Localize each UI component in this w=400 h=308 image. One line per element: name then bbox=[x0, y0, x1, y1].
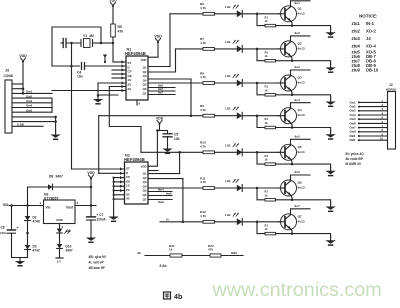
wire J1 pin9 bbox=[12, 120, 57, 123]
svg-text:47k: 47k bbox=[208, 248, 213, 252]
wire row7 to diode bbox=[215, 221, 237, 223]
wire J2 pin8 Ow8 bbox=[350, 128, 388, 134]
crystal Y1 4MHz bbox=[81, 34, 101, 48]
resistor R22 47k bottom bbox=[208, 244, 221, 257]
svg-text:9o13: 9o13 bbox=[298, 186, 305, 190]
wire row1 to ground bbox=[292, 26, 331, 29]
wire bus to row2 bbox=[175, 49, 177, 72]
svg-text:ztu2: ztu2 bbox=[352, 29, 361, 34]
wire row4 to diode bbox=[215, 115, 237, 117]
wire U2 pin8 stub bbox=[113, 198, 125, 200]
wire row2 input bbox=[176, 48, 204, 50]
text PSU notes bbox=[89, 255, 107, 270]
svg-text:9o2: 9o2 bbox=[295, 31, 301, 35]
wire collector out row1 bbox=[291, 1, 311, 7]
wire U2 Q4 stub bbox=[148, 188, 172, 192]
diode D10 1N4007 bbox=[57, 244, 73, 253]
wire collector out row4 bbox=[291, 98, 311, 109]
svg-text:9407: 9407 bbox=[56, 175, 64, 179]
wire row6 diode to base bbox=[242, 187, 285, 190]
svg-text:Vin: Vin bbox=[46, 206, 51, 210]
wire J2 pin2 Ow2 bbox=[350, 103, 388, 109]
wire row2 junction down bbox=[257, 49, 265, 61]
wire D9 to D10 bbox=[59, 233, 61, 244]
svg-text:9407: 9407 bbox=[66, 249, 73, 253]
ground below C7 bbox=[86, 234, 96, 242]
svg-text:Q7: Q7 bbox=[143, 197, 147, 201]
wire emitter row1 bbox=[291, 21, 293, 26]
wire U2 Q3 out bbox=[148, 178, 183, 180]
wire U2 pin1 cascade A bbox=[72, 167, 125, 170]
LED D5 bbox=[225, 143, 242, 155]
wire U2 Q2 out bbox=[148, 173, 180, 175]
svg-text:Ow4: Ow4 bbox=[26, 104, 32, 108]
wire U2 VDD pin up bbox=[148, 129, 159, 166]
wire U1 VDD pin bbox=[148, 45, 158, 57]
svg-text:9o4: 9o4 bbox=[295, 98, 301, 102]
svg-text:L1B: L1B bbox=[225, 5, 230, 9]
svg-text:4742: 4742 bbox=[33, 249, 40, 253]
wire up to D8 bbox=[28, 187, 49, 206]
wire U1 Q4 out bbox=[148, 78, 191, 80]
svg-text:9w5: 9w5 bbox=[166, 192, 172, 196]
wire J1 pin8 bbox=[12, 116, 57, 119]
svg-text:Q2: Q2 bbox=[298, 41, 302, 45]
resistor R11 4.7k bbox=[200, 176, 215, 189]
wire 7805 out bbox=[75, 204, 96, 207]
svg-text:1k: 1k bbox=[265, 158, 269, 162]
svg-text:4b: 4b bbox=[174, 292, 183, 301]
svg-text:9w6: 9w6 bbox=[158, 200, 164, 204]
wire row5 junction down bbox=[257, 152, 265, 164]
wire oscillator loop left bbox=[51, 27, 53, 66]
svg-text:104: 104 bbox=[174, 137, 180, 141]
svg-text:M AMR 4V: M AMR 4V bbox=[346, 162, 362, 166]
LED D1 bbox=[225, 5, 242, 17]
svg-text:Ow1: Ow1 bbox=[26, 90, 32, 94]
wire pulldown to emitter row2 bbox=[276, 59, 294, 62]
wire row6 input bbox=[148, 187, 203, 189]
svg-text:Q7: Q7 bbox=[298, 214, 302, 218]
svg-text:C8: C8 bbox=[1, 226, 5, 230]
IC U1 HEF4094B shift register bbox=[125, 48, 148, 101]
svg-text:VDD: VDD bbox=[156, 116, 164, 120]
svg-text:9o6: 9o6 bbox=[295, 170, 301, 174]
wire bus to row1 bbox=[169, 14, 171, 67]
svg-text:9o7: 9o7 bbox=[295, 204, 301, 208]
wire U2 pin4 stub bbox=[113, 180, 125, 183]
wire pulldown to emitter row6 bbox=[276, 199, 294, 202]
svg-text:IN-1: IN-1 bbox=[366, 21, 375, 26]
capacitor C7 220uF bbox=[87, 213, 106, 222]
wire row4 junction down bbox=[257, 116, 265, 128]
transistor Q6 9013 bbox=[278, 180, 305, 196]
wire U2 bus to ground bbox=[113, 178, 115, 213]
wire row7 junction down bbox=[257, 222, 265, 234]
IC N3 7805 regulator bbox=[40, 193, 79, 230]
wire row3 to ground bbox=[292, 95, 331, 98]
svg-text:D9: D9 bbox=[67, 229, 71, 233]
wire row1 input bbox=[170, 13, 203, 15]
wire bus to row7 bbox=[182, 179, 185, 223]
LED D3 bbox=[225, 74, 242, 86]
wire J2 pin10 DB5 bbox=[350, 137, 388, 143]
wire emitter row6 bbox=[291, 195, 293, 200]
wire emitter row7 bbox=[291, 229, 293, 234]
wire U1 gnd stub bbox=[137, 100, 141, 106]
wire collector out row2 bbox=[291, 31, 311, 42]
svg-text:VDD: VDD bbox=[141, 165, 147, 169]
svg-text:8 Ab: 8 Ab bbox=[160, 264, 167, 268]
wire U1 Q5 stub bbox=[148, 84, 175, 88]
wire AC to C8 bbox=[11, 206, 13, 230]
svg-text:Ow2: Ow2 bbox=[26, 94, 32, 98]
svg-text:4M: 4M bbox=[89, 34, 94, 38]
wire row7 input bbox=[160, 217, 203, 222]
capacitor C4 10u bbox=[77, 63, 85, 79]
resistor R17 1k bbox=[265, 223, 276, 235]
svg-text:4B: q1w 9V: 4B: q1w 9V bbox=[89, 255, 107, 259]
svg-text:9o13: 9o13 bbox=[298, 113, 305, 117]
svg-text:100u: 100u bbox=[0, 231, 7, 235]
svg-text:9o1: 9o1 bbox=[295, 1, 301, 5]
wire crystal to node OSC1 bbox=[101, 42, 113, 44]
svg-text:D8: D8 bbox=[49, 175, 53, 179]
svg-text:1k: 1k bbox=[265, 193, 269, 197]
wire C7 down bbox=[90, 220, 92, 234]
wire row2 to ground bbox=[292, 61, 331, 64]
wire VDD to R5 bbox=[112, 9, 114, 24]
wire bottom left segment bbox=[145, 255, 170, 257]
wire row7 to ground bbox=[292, 234, 331, 237]
wire J1 pin3 bbox=[12, 90, 52, 94]
resistor R8 4.7k bbox=[200, 71, 215, 84]
wire U1 Q1 out bbox=[148, 66, 170, 68]
resistor R11 1k bbox=[265, 15, 276, 27]
resistor R15 1k bbox=[265, 154, 276, 166]
wire row1 diode to base bbox=[242, 13, 285, 16]
svg-text:VDD: VDD bbox=[19, 54, 27, 58]
svg-text:4.7k: 4.7k bbox=[200, 108, 206, 112]
power VDD symbol at C5 bbox=[156, 116, 164, 128]
wire row3 input bbox=[148, 82, 203, 84]
wire VDD rail down bbox=[90, 183, 92, 217]
svg-text:VDD: VDD bbox=[109, 0, 117, 2]
wire row3 to diode bbox=[215, 82, 237, 84]
wire row6 to ground bbox=[292, 200, 331, 203]
svg-text:R5: R5 bbox=[118, 25, 122, 29]
wire to C5 bbox=[159, 131, 168, 134]
capacitor C5 bbox=[163, 133, 180, 142]
wire cascade bus B vertical bbox=[98, 116, 100, 174]
svg-text:4.7k: 4.7k bbox=[200, 75, 206, 79]
wire row4 input bbox=[191, 115, 203, 117]
wire emitter row2 bbox=[291, 56, 293, 61]
resistor R13 1k bbox=[265, 85, 276, 97]
svg-text:9o13: 9o13 bbox=[298, 81, 305, 85]
wire pulldown to emitter row7 bbox=[276, 232, 294, 235]
svg-text:XO-2: XO-2 bbox=[366, 29, 376, 34]
resistor R12 4.7k bbox=[200, 210, 215, 223]
wire row1 to diode bbox=[215, 13, 237, 15]
wire collector out row5 bbox=[291, 135, 311, 146]
wire U2 pin7 stub bbox=[113, 194, 125, 196]
ground at J1 bbox=[50, 131, 60, 139]
ground row6 bbox=[325, 203, 335, 211]
svg-text:10: 10 bbox=[380, 137, 384, 141]
svg-text:4.7k: 4.7k bbox=[200, 6, 206, 10]
LED D9 indicator bbox=[57, 229, 71, 234]
wire collector out row6 bbox=[291, 170, 311, 181]
svg-text:47k: 47k bbox=[118, 30, 124, 34]
svg-text:4L vwt eP: 4L vwt eP bbox=[89, 261, 105, 265]
wire row2 diode to base bbox=[242, 48, 285, 51]
svg-text:DB-10: DB-10 bbox=[366, 68, 379, 73]
svg-text:L1B: L1B bbox=[225, 74, 230, 78]
wire bus to row4 bbox=[190, 79, 193, 117]
svg-text:X DB: X DB bbox=[17, 123, 24, 127]
svg-text:4.7k: 4.7k bbox=[200, 144, 206, 148]
svg-text:4B acw 9P: 4B acw 9P bbox=[89, 266, 106, 270]
wire J1 pin7 bbox=[12, 108, 52, 112]
svg-text:VDD: VDD bbox=[154, 34, 162, 38]
wire emitter row3 bbox=[291, 90, 293, 95]
transistor Q7 9013 bbox=[278, 214, 305, 230]
svg-text:9a7: 9a7 bbox=[158, 91, 163, 95]
wire J2 pin1 Ow1 bbox=[350, 99, 388, 105]
svg-text:Vout: Vout bbox=[66, 206, 74, 210]
svg-text:VDD: VDD bbox=[141, 58, 147, 62]
wire U2 pin6 stub bbox=[113, 189, 125, 192]
wire U1 pin3 stub bbox=[112, 68, 126, 71]
wire row4 to ground bbox=[292, 128, 331, 131]
wire row5 to ground bbox=[292, 164, 331, 167]
wire C5 to ground bbox=[167, 137, 169, 145]
svg-text:+: + bbox=[17, 226, 19, 230]
svg-text:L1B: L1B bbox=[225, 107, 230, 111]
svg-text:ztu9: ztu9 bbox=[352, 68, 361, 73]
text label 8 Ab bbox=[160, 264, 167, 268]
resistor R21 1k bottom bbox=[169, 244, 182, 257]
wire VDD to U2 rail bbox=[157, 128, 159, 131]
zener D3 bbox=[25, 245, 40, 253]
svg-text:ztu4: ztu4 bbox=[352, 44, 361, 49]
node OSC1 bbox=[112, 37, 115, 44]
connector J1 CON10 left bbox=[4, 69, 13, 134]
svg-text:4S: 4S bbox=[126, 197, 130, 201]
wire C4 to U1 pin2 bbox=[70, 64, 126, 67]
wire AC input rail bbox=[9, 204, 44, 207]
wire oscillator loop top bbox=[52, 27, 102, 44]
transistor Q5 9013 bbox=[278, 144, 305, 160]
wire J2 pin5 Ow5 bbox=[350, 116, 388, 122]
wire VDD to J1 pins bbox=[22, 65, 25, 95]
node IN2 AC input bbox=[3, 203, 9, 207]
wire J2 pin9 DB4 bbox=[350, 132, 388, 138]
svg-text:KT7805T: KT7805T bbox=[44, 196, 59, 200]
wire U1 Q6 stub bbox=[148, 87, 175, 91]
power VDD symbol PSU bbox=[87, 171, 95, 183]
wire U2 pin5 stub bbox=[113, 185, 125, 188]
wire row5 to diode bbox=[215, 151, 237, 153]
svg-text:HDR10: HDR10 bbox=[386, 87, 396, 91]
wire J2 pin3 Ow3 bbox=[350, 107, 388, 113]
wire U1 pin4 stub bbox=[112, 72, 126, 75]
svg-text:C5: C5 bbox=[174, 133, 178, 137]
wire loop to C4 bbox=[52, 65, 80, 67]
svg-text:1k: 1k bbox=[169, 248, 173, 252]
node label left bottom bbox=[137, 251, 141, 255]
ground row1 bbox=[325, 29, 335, 37]
ground below U2 bbox=[108, 213, 118, 221]
capacitor C8 100uF bbox=[0, 226, 19, 235]
wire cascade bus A vertical bbox=[71, 43, 73, 169]
wire row6 junction down bbox=[257, 188, 265, 200]
resistor R9 4.7k bbox=[200, 104, 215, 117]
wire J1 pin5 bbox=[12, 99, 52, 103]
svg-text:9o13: 9o13 bbox=[298, 46, 305, 50]
svg-text:Q6: Q6 bbox=[298, 181, 302, 185]
wire collector out row7 bbox=[291, 204, 311, 215]
wire J1 pin10 bbox=[12, 123, 43, 127]
wire C8 down bbox=[11, 233, 13, 257]
svg-text:+ C7: + C7 bbox=[97, 213, 104, 217]
svg-text:NOTICE:: NOTICE: bbox=[359, 14, 378, 19]
wire U1 OE to ground bbox=[97, 81, 126, 96]
svg-text:Q3: Q3 bbox=[298, 76, 302, 80]
svg-text:1k: 1k bbox=[265, 88, 269, 92]
svg-text:3S: 3S bbox=[128, 87, 132, 91]
svg-text:4.7k: 4.7k bbox=[200, 41, 206, 45]
svg-text:GND: GND bbox=[56, 218, 64, 222]
LED D2 bbox=[225, 40, 242, 52]
ground row5 bbox=[325, 167, 335, 175]
wire U1 Q2 out bbox=[148, 71, 176, 73]
LED D4 bbox=[225, 107, 242, 119]
svg-text:1k: 1k bbox=[265, 54, 269, 58]
power VDD symbol at J1 bbox=[19, 54, 27, 66]
ground row3 bbox=[325, 98, 335, 106]
wire pulldown to emitter row3 bbox=[276, 94, 294, 97]
svg-text:4b code BP: 4b code BP bbox=[346, 157, 364, 161]
svg-text:L1B: L1B bbox=[225, 143, 230, 147]
ground at U1 OE bbox=[93, 96, 103, 104]
wire J2 pin7 Ow7 bbox=[350, 124, 388, 130]
svg-text:9o13: 9o13 bbox=[298, 150, 305, 154]
wire row3 diode to base bbox=[242, 82, 285, 85]
resistor R5 47k bbox=[111, 24, 124, 37]
ground row2 bbox=[325, 64, 335, 72]
svg-text:J-3: J-3 bbox=[57, 260, 62, 264]
wire U2 Q6 stub bbox=[148, 200, 172, 205]
svg-text:Y1: Y1 bbox=[83, 34, 87, 38]
wire collector out row3 bbox=[291, 65, 311, 76]
wire J1 pin1 bbox=[12, 83, 23, 85]
svg-text:Ow5: Ow5 bbox=[26, 108, 32, 112]
ground below C5 bbox=[162, 145, 172, 153]
svg-text:1k: 1k bbox=[265, 121, 269, 125]
svg-text:9o13: 9o13 bbox=[298, 219, 305, 223]
resistor R7 4.7k bbox=[200, 37, 215, 50]
LED D6 bbox=[225, 179, 242, 191]
wire row3 junction down bbox=[257, 83, 265, 95]
wire pulldown to emitter row1 bbox=[276, 24, 294, 27]
text notes under J2 bbox=[346, 152, 365, 166]
power symbol at U1 pin1 bbox=[103, 55, 107, 63]
table NOTICE net assignments bbox=[352, 14, 379, 73]
wire row2 to diode bbox=[215, 48, 237, 50]
svg-text:ztu1: ztu1 bbox=[352, 21, 361, 26]
svg-text:220uF: 220uF bbox=[97, 218, 106, 222]
svg-text:Q4: Q4 bbox=[298, 108, 302, 112]
svg-text:9o5: 9o5 bbox=[295, 135, 301, 139]
svg-text:Q5: Q5 bbox=[298, 145, 302, 149]
wire ground rail PSU bbox=[12, 257, 28, 259]
svg-text:9F: 9F bbox=[137, 251, 141, 255]
ground row4 bbox=[325, 131, 335, 139]
zener D2 bbox=[25, 216, 40, 224]
transistor Q1 9013 bbox=[278, 6, 305, 22]
wire U1 pin5 stub bbox=[112, 76, 126, 79]
wire bottom mid segment bbox=[182, 255, 210, 257]
transistor Q3 9013 bbox=[278, 75, 305, 91]
svg-text:Q1: Q1 bbox=[298, 6, 302, 10]
svg-text:L1B: L1B bbox=[225, 40, 230, 44]
svg-text:J3: J3 bbox=[5, 69, 9, 73]
svg-text:Q7: Q7 bbox=[143, 91, 147, 95]
wire J1 to ground bbox=[55, 117, 57, 131]
svg-text:9o13: 9o13 bbox=[298, 11, 305, 15]
wire rail to D2 bbox=[27, 206, 29, 217]
svg-text:4748: 4748 bbox=[33, 220, 40, 224]
wire emitter row5 bbox=[291, 159, 293, 164]
svg-text:J4: J4 bbox=[366, 36, 371, 41]
wire J2 pin4 Ow4 bbox=[350, 111, 388, 117]
wire 7805 gnd down bbox=[59, 224, 61, 229]
transistor Q4 9013 bbox=[278, 108, 305, 124]
power VDD symbol at U1 bbox=[154, 34, 162, 46]
svg-text:XO-4: XO-4 bbox=[366, 44, 376, 49]
wire U1 pin6 stub bbox=[109, 85, 126, 88]
svg-text:L1B: L1B bbox=[225, 179, 230, 183]
wire D3 down bbox=[27, 250, 29, 258]
wire row6 to diode bbox=[215, 187, 237, 189]
wire staircase to row5 bbox=[109, 87, 141, 153]
resistor R16 1k bbox=[265, 190, 276, 202]
svg-text:9+: 9+ bbox=[166, 217, 170, 221]
wire pulldown to emitter row5 bbox=[276, 163, 294, 166]
wire U2 pin2 cascade B bbox=[99, 172, 125, 175]
wire U1 Q7 stub bbox=[148, 91, 175, 95]
svg-text:L1B: L1B bbox=[225, 213, 230, 217]
resistor R10 4.7k bbox=[200, 141, 215, 154]
wire row4 feed line bbox=[99, 115, 191, 117]
wire emitter row4 bbox=[291, 123, 293, 128]
wire J1 pin2 bbox=[12, 88, 23, 90]
wire J2 pin6 Ow6 bbox=[350, 120, 388, 126]
wire bottom right segment bbox=[221, 251, 243, 256]
resistor R14 1k bbox=[265, 117, 276, 129]
wire U2 Q1 stub bbox=[148, 170, 158, 172]
wire row1 junction down bbox=[257, 14, 265, 26]
wire node OSC1 to U1 pin1 bbox=[104, 43, 126, 64]
svg-text:Ow3: Ow3 bbox=[26, 99, 32, 103]
svg-text:4.7k: 4.7k bbox=[200, 214, 206, 218]
svg-text:www.cntronics.com: www.cntronics.com bbox=[212, 279, 382, 301]
wire D10 end bbox=[56, 249, 63, 264]
watermark www.cntronics.com bbox=[212, 279, 382, 301]
power VDD symbol top bbox=[109, 0, 117, 10]
